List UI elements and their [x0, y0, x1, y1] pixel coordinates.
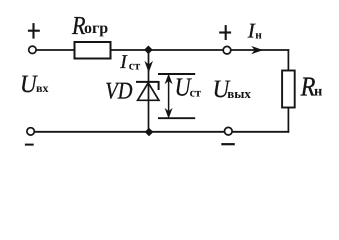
node top junction: [144, 46, 153, 55]
wire top rail (junction to output circle): [149, 49, 224, 51]
label Rн: [300, 70, 323, 101]
svg-text:ст: ст: [129, 59, 141, 73]
wire top rail (Rогр to top junction): [111, 49, 149, 51]
wire top rail right (output circle to corner): [231, 49, 289, 51]
label Iн: [247, 19, 262, 43]
label Rогр: [71, 11, 108, 40]
resistor R2 (Rн): [282, 71, 295, 108]
wire right vertical lower (Rн to bottom rail): [287, 108, 289, 133]
label Iст: [119, 52, 140, 73]
wire bottom rail right (circle to right vertical): [232, 131, 289, 133]
svg-text:ст: ст: [190, 85, 202, 99]
output - terminal circle: [225, 127, 233, 135]
output + terminal circle: [223, 46, 231, 54]
node bottom junction: [145, 128, 154, 137]
minus sign (output): [221, 143, 235, 145]
wire bottom rail (left circle to bottom junction): [34, 131, 149, 133]
wire bottom rail (junction to output minus circle): [149, 131, 224, 133]
zener diode VD: [136, 81, 159, 100]
wire middle vertical (through zener): [148, 50, 150, 132]
label Uст: [175, 73, 202, 102]
wire top rail left (input circle to Rогр): [36, 49, 75, 51]
current arrow Iст (down): [145, 62, 152, 72]
input + terminal circle: [29, 46, 36, 53]
svg-text:н: н: [255, 29, 262, 41]
wire right vertical upper (corner to Rн): [287, 49, 289, 70]
svg-text:вх: вх: [36, 81, 48, 95]
current arrow Iн (right): [252, 47, 262, 54]
minus sign (input): [25, 144, 34, 146]
svg-text:н: н: [314, 84, 322, 100]
resistor R1 (Rогр): [75, 42, 111, 59]
label Uвых: [213, 76, 252, 103]
plus sign (output): [219, 25, 231, 40]
svg-text:вых: вых: [227, 86, 251, 101]
plus sign (input): [28, 23, 40, 38]
voltage marker Uст (bars + double arrow): [158, 74, 195, 118]
label Uвх: [20, 71, 48, 98]
input - terminal circle: [27, 128, 34, 135]
svg-text:VD: VD: [105, 78, 132, 104]
svg-text:огр: огр: [84, 20, 108, 37]
